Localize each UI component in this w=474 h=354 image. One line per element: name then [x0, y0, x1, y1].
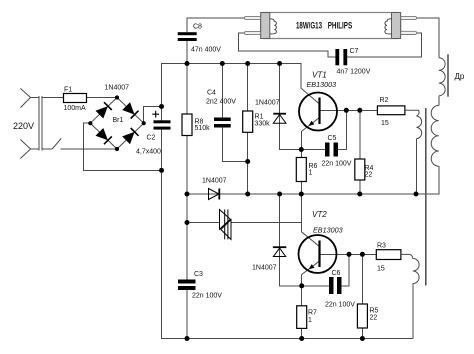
wire: R6 bottom to midline	[300, 182, 302, 195]
lamp pin 3 (lower right)	[401, 31, 417, 34]
connector X1 double bars	[39, 96, 42, 151]
lamp pin 2 (lower left)	[245, 31, 261, 34]
node: VT1 emitter junction	[299, 147, 304, 152]
lamp left filament	[270, 19, 277, 34]
wire: C2 leads	[161, 107, 163, 171]
resistor R3	[376, 250, 401, 260]
svg-text:1N4007: 1N4007	[255, 100, 280, 107]
svg-text:4,7x400: 4,7x400	[136, 149, 161, 156]
wire: bridge negative (left corner) down to C2 minus node	[84, 123, 162, 170]
wire: mains N to switch	[42, 148, 52, 150]
node: bridge right corner	[142, 121, 146, 125]
node: bus at VD5	[277, 61, 282, 66]
resistor R8	[182, 114, 192, 136]
diode VD6 1N4007 (VT2 clamp)	[273, 247, 286, 256]
svg-text:22: 22	[370, 315, 378, 322]
svg-text:C4: C4	[207, 90, 216, 97]
svg-text:18W/G13: 18W/G13	[296, 21, 322, 31]
node: midline at R1	[245, 192, 250, 197]
node: diac tap	[185, 220, 190, 225]
svg-text:C7: C7	[350, 48, 359, 55]
node: bridge left corner	[88, 121, 92, 125]
VT1 emitter diagonal	[301, 118, 319, 132]
node: VT2 emitter junction	[299, 283, 304, 288]
node: bridge bottom corner	[115, 147, 119, 151]
svg-text:C5: C5	[328, 135, 337, 142]
VT1 base bar	[318, 98, 320, 125]
svg-text:15: 15	[381, 120, 389, 127]
VT2 emitter arrow	[309, 264, 315, 269]
svg-text:VT2: VT2	[312, 210, 327, 219]
wire: winding II bottom to minus bus	[412, 284, 414, 339]
svg-text:22n 100V: 22n 100V	[325, 302, 355, 309]
VT1 emitter arrow	[309, 121, 315, 126]
capacitor C8 plates	[178, 32, 197, 41]
svg-text:22n 100V: 22n 100V	[322, 161, 352, 168]
node: C2 plus junction	[159, 104, 164, 109]
svg-text:R5: R5	[370, 308, 379, 315]
plug pin upper (mains L) blades	[20, 88, 30, 107]
svg-text:C2: C2	[147, 135, 156, 142]
svg-text:100mA: 100mA	[64, 105, 87, 112]
wire: emitter node to R7 top	[301, 286, 303, 306]
svg-text:R2: R2	[380, 97, 389, 104]
node: VT2 base at R5 riser	[360, 252, 365, 257]
diode VD5 1N4007 (VT1 clamp)	[273, 114, 286, 124]
svg-text:C3: C3	[194, 271, 203, 278]
lamp EL1 tube	[261, 13, 401, 39]
lamp right electrode	[392, 13, 401, 39]
node: bus at C8/R8	[185, 61, 190, 66]
wire: C5 right to base line	[338, 110, 346, 149]
wire: R8 bottom to node A	[186, 136, 188, 195]
svg-text:1: 1	[308, 317, 312, 324]
resistor R6	[296, 158, 306, 182]
wire: midline (half-bridge midpoint)	[187, 166, 439, 194]
node: bus at R1	[245, 61, 250, 66]
svg-text:R3: R3	[377, 243, 386, 250]
wire: C8 top lead to lamp pin 1	[187, 18, 245, 32]
resistor R4	[355, 159, 365, 180]
VT2 emitter diagonal	[302, 261, 320, 275]
wire: R7 bottom to minus bus	[301, 328, 303, 338]
node: VT1 base at C5 riser	[344, 108, 349, 113]
wire: emitter node to C6 left	[302, 285, 329, 287]
wire: lamp pin 2 to C7 left	[239, 33, 336, 57]
transformer T1 winding II (to VT2 base via R3)	[401, 254, 419, 283]
svg-text:C8: C8	[193, 24, 202, 31]
wire: midline through VD6 to VT2 emitter node	[280, 194, 302, 286]
node A: R8/C3/diac junction on midline	[185, 192, 190, 197]
bridge rectifier Br1 frame	[90, 98, 143, 150]
capacitor C2 plates	[154, 120, 171, 129]
capacitor C5 plates	[325, 143, 338, 157]
wire: C6 right to base line	[342, 254, 350, 285]
svg-text:220V: 220V	[13, 121, 34, 131]
wire: mains N lead-in	[31, 148, 40, 150]
node: minus bus at R5	[360, 336, 365, 341]
transformer T1 winding III (to VT1 base via R2)	[405, 110, 422, 138]
wire: DC plus bus (C2 node up, along top, to VT1 collector drop)	[162, 64, 301, 107]
svg-text:1N4007: 1N4007	[105, 85, 130, 92]
wire: diac tap to diac left	[187, 222, 220, 224]
svg-text:4n7 1200V: 4n7 1200V	[337, 69, 371, 76]
wire: R4 bottom to midline	[359, 180, 361, 194]
wire: base line to R5 top	[361, 254, 363, 304]
wire: C4 bottom to R1 node	[222, 128, 247, 162]
diode VD7 1N4007 (midline series)	[209, 189, 220, 200]
svg-text:Br1: Br1	[113, 117, 124, 124]
svg-text:VT1: VT1	[312, 71, 327, 80]
svg-text:2n2 400V: 2n2 400V	[206, 99, 236, 106]
wire: emitter node to R6 top	[300, 150, 302, 158]
wire: choke bottom to winding I top	[438, 96, 440, 106]
wire: fuse F1 to bridge top corner	[87, 97, 118, 99]
svg-text:510k: 510k	[195, 125, 211, 132]
transistor VT2 circle	[299, 235, 337, 273]
wire: R1 bottom through node to midline	[247, 132, 249, 194]
wire: DC minus rail (left vertical + bottom bus)	[162, 170, 413, 338]
VT2 base bar	[318, 241, 320, 268]
wire: bus to C4 top	[221, 64, 223, 118]
C2 polarity plus sign	[152, 111, 159, 118]
wire: diac right to VT2 collector riser	[231, 222, 301, 224]
wire: emitter node to C5 left	[301, 149, 325, 151]
wire: VT1 collector riser	[300, 64, 302, 89]
capacitor C6 plates	[329, 277, 342, 294]
plug pin lower (mains N) blades	[20, 140, 30, 159]
svg-text:F1: F1	[64, 87, 72, 94]
wire: VT2 emitter drop to node	[301, 275, 303, 286]
svg-text:22n 100V: 22n 100V	[192, 293, 222, 300]
wire: node A down through diac tap to C3	[186, 194, 188, 280]
wire: C3 bottom to minus bus	[186, 290, 188, 339]
svg-text:Др: Др	[455, 72, 465, 81]
lamp left electrode	[261, 13, 270, 39]
wire: mains L to fuse F1	[42, 97, 64, 99]
wire: VT1 base line to R2	[320, 109, 378, 111]
wire: midline down to VT2 collector diagonal	[300, 194, 302, 232]
lamp right filament	[385, 19, 392, 34]
diac VS1 (DB3 trigger diode)	[220, 210, 232, 240]
svg-text:22: 22	[365, 172, 373, 179]
wire: bus to R8 top	[186, 64, 188, 115]
wire: mains L lead-in	[31, 97, 40, 99]
node: midline at VD6	[277, 192, 282, 197]
node: VT1 base at R4 riser	[357, 108, 362, 113]
VT1 collector diagonal	[301, 88, 320, 104]
capacitor C3 plates	[178, 280, 196, 291]
node: midline at R6/VT2 collector	[299, 192, 304, 197]
bridge diode D2 (top-right)	[122, 102, 138, 118]
resistor R5	[357, 304, 367, 328]
svg-text:C6: C6	[332, 270, 341, 277]
wire: lamp pin 4 to choke top	[417, 18, 439, 58]
bridge diode D3 (left-bottom)	[96, 128, 112, 144]
wire: base line to R4 top	[359, 110, 361, 159]
choke Dr core	[447, 54, 449, 96]
capacitor C4 plates	[214, 118, 231, 128]
node: C4/R1 junction	[245, 159, 250, 164]
wire: VT1 emitter drop to node	[300, 132, 302, 150]
wire: winding III bottom to midline node	[416, 139, 418, 194]
transformer T1 core	[425, 108, 427, 286]
wire: C8 bottom lead to bus	[186, 38, 188, 64]
svg-text:R7: R7	[308, 310, 317, 317]
fuse F1	[64, 94, 87, 103]
svg-text:15: 15	[377, 266, 385, 273]
wire: switch to bridge bottom corner	[61, 148, 118, 150]
svg-text:47n 400V: 47n 400V	[191, 47, 221, 54]
transformer T1 winding I (main)	[431, 105, 439, 166]
wire: VT2 base line to R3	[320, 253, 377, 255]
node: VT2 base at C6 riser	[347, 252, 352, 257]
svg-text:1: 1	[309, 170, 313, 177]
transistor VT1 circle	[299, 93, 337, 131]
node: C2 minus junction	[159, 168, 164, 173]
svg-text:330k: 330k	[255, 121, 271, 128]
node: minus bus at C3	[185, 336, 190, 341]
switch SA1 open arm	[52, 138, 61, 149]
svg-text:EB13003: EB13003	[307, 80, 337, 89]
node: midline at winding III	[414, 192, 419, 197]
lamp pin 4 (upper right)	[401, 16, 417, 19]
lamp pin 1 (upper left)	[245, 16, 261, 19]
bridge diode D4 (bottom-right)	[122, 128, 138, 144]
node: midline at R4	[357, 192, 362, 197]
resistor R7	[297, 306, 307, 329]
svg-text:1N4007: 1N4007	[252, 265, 277, 272]
svg-text:R1: R1	[255, 114, 264, 121]
node: bus at C4	[220, 61, 225, 66]
choke Dr winding	[439, 58, 445, 96]
wire: bridge positive (right corner) up to C2 plus node	[144, 107, 162, 124]
wire: bus to R1 top	[247, 64, 249, 112]
resistor R1	[243, 111, 253, 132]
wire: bus through VD5 to VT1 emitter node	[280, 64, 302, 150]
svg-text:1N4007: 1N4007	[202, 178, 227, 185]
bridge diode D1 (left-top)	[96, 102, 112, 118]
resistor R2	[377, 106, 405, 115]
wire: R5 bottom to minus bus	[361, 328, 363, 339]
node: minus bus at R7	[299, 336, 304, 341]
VT2 collector diagonal	[301, 232, 319, 247]
wire: C7 right to lamp pin 3	[347, 33, 421, 57]
node: bridge top corner	[115, 95, 119, 99]
svg-text:PHILIPS: PHILIPS	[328, 21, 353, 31]
svg-text:EB13003: EB13003	[313, 226, 343, 235]
capacitor C7 plates	[335, 49, 347, 65]
